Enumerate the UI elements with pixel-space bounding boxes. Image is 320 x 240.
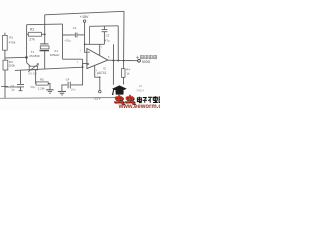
svg-text:C1: C1 bbox=[73, 26, 77, 30]
svg-text:≈20μ: ≈20μ bbox=[64, 38, 71, 42]
svg-text:R1: R1 bbox=[9, 36, 13, 40]
svg-text:1k: 1k bbox=[127, 71, 131, 75]
svg-text:500Ω: 500Ω bbox=[142, 60, 151, 64]
svg-text:R5: R5 bbox=[40, 77, 44, 81]
svg-text:7: 7 bbox=[101, 46, 103, 49]
svg-text:+15V: +15V bbox=[80, 15, 89, 19]
svg-text:C3: C3 bbox=[106, 34, 110, 38]
svg-text:R2: R2 bbox=[30, 27, 34, 31]
svg-text:150k: 150k bbox=[8, 64, 15, 68]
svg-text:μA741: μA741 bbox=[97, 71, 107, 75]
svg-text:465kHz: 465kHz bbox=[50, 53, 60, 57]
svg-text:D1: D1 bbox=[139, 84, 143, 88]
svg-text:6: 6 bbox=[108, 55, 110, 59]
svg-text:2SC839: 2SC839 bbox=[29, 54, 40, 58]
svg-text:W1 500: W1 500 bbox=[28, 72, 37, 76]
svg-text:1μ: 1μ bbox=[11, 88, 15, 92]
svg-text:-15V: -15V bbox=[93, 96, 101, 100]
svg-text:47μ: 47μ bbox=[105, 39, 110, 43]
svg-text:2.2M: 2.2M bbox=[38, 87, 45, 91]
svg-text:3: 3 bbox=[77, 61, 79, 64]
svg-text:P9514: P9514 bbox=[137, 89, 145, 93]
svg-text:2: 2 bbox=[80, 49, 82, 52]
svg-text:www.eeworm.com: www.eeworm.com bbox=[118, 104, 160, 110]
svg-text:27k: 27k bbox=[29, 37, 35, 41]
svg-text:470k: 470k bbox=[9, 40, 16, 44]
svg-text:C4: C4 bbox=[66, 78, 70, 82]
svg-text:50μ: 50μ bbox=[30, 85, 35, 89]
svg-text:IC: IC bbox=[103, 66, 107, 70]
svg-text:20n: 20n bbox=[71, 87, 76, 91]
